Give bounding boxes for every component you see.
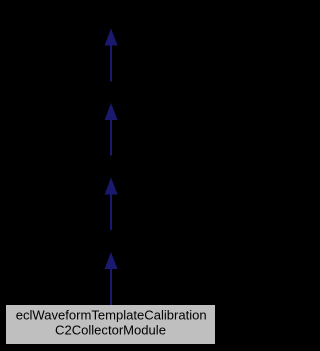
inheritance arrow 2 xyxy=(105,103,118,156)
inheritance arrow 1 (to top node) xyxy=(105,29,118,83)
svg-text:C2CollectorModule: C2CollectorModule xyxy=(55,322,166,337)
node: ancestor class 4 (invisible, black on black) xyxy=(76,231,146,253)
inheritance arrow 4 (to current node) xyxy=(105,252,118,305)
inheritance arrow 3 xyxy=(105,178,118,231)
node: ancestor class 3 (invisible, black on black) xyxy=(76,156,146,178)
svg-text:eclWaveformTemplateCalibration: eclWaveformTemplateCalibration xyxy=(16,307,207,322)
node: base class (invisible, black on black) xyxy=(76,6,146,30)
node: eclWaveformTemplateCalibrationC2CollectorModule (current class, gray box) xyxy=(6,305,215,344)
node: ancestor class 2 (invisible, black on black) xyxy=(76,82,146,104)
